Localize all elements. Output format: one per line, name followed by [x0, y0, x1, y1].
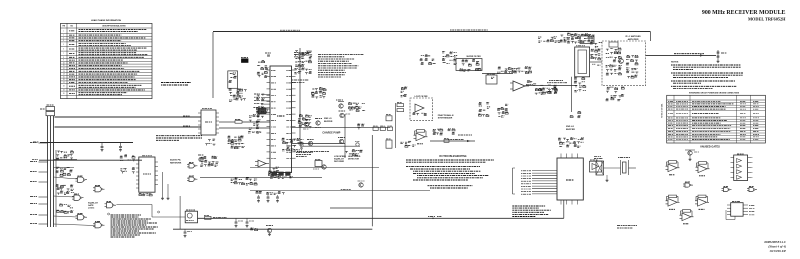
wire bus stub 6	[30, 203, 48, 206]
wire VCO to IF amp	[590, 62, 602, 65]
resistor R310	[204, 215, 227, 219]
VCO tuning parts	[590, 42, 602, 60]
U404 bypass caps	[139, 193, 152, 196]
loop filter ground caps	[400, 141, 415, 147]
wire bus line 2	[50, 116, 52, 227]
transistor Q460	[685, 150, 699, 161]
de-emphasis network	[200, 156, 219, 166]
gate U402B	[105, 202, 117, 208]
svg-text:SHIELD DETAIL: SHIELD DETAIL	[661, 102, 664, 118]
resistor network R230-R232	[373, 126, 393, 130]
note parts noted	[617, 226, 637, 229]
wire 5V net	[33, 141, 133, 144]
IF amp bias parts	[606, 87, 625, 101]
wire AUD net	[55, 116, 202, 117]
IC U303 squelch decoder	[313, 159, 326, 169]
wire VCC vertical drop	[212, 32, 214, 98]
label fractional-N synthesizer	[438, 114, 454, 120]
capacitors C230 group	[357, 124, 364, 130]
svg-text:IF LC MATCHED: IF LC MATCHED	[625, 35, 641, 38]
capacitor C209	[265, 53, 271, 56]
U200 left side parts	[256, 94, 265, 123]
label VCO buffer	[566, 126, 575, 131]
detector module U301	[185, 210, 197, 223]
label 2nd LO	[292, 80, 309, 82]
wire U800 riser	[563, 200, 565, 218]
label squelch decoder	[334, 156, 347, 163]
high speed data filter	[345, 150, 363, 161]
gate U401A	[76, 176, 88, 182]
svg-text:UNUSED GATES: UNUSED GATES	[700, 146, 720, 149]
capacitor squelch bypass 1	[257, 195, 260, 202]
svg-text:SUPER FILTER: SUPER FILTER	[466, 56, 481, 58]
super filter caps	[460, 68, 481, 71]
squelch net parts	[231, 178, 257, 185]
capacitors C440 C441	[717, 50, 728, 63]
resistor R421	[261, 108, 270, 113]
svg-text:12: 12	[63, 68, 65, 70]
op-amp U502	[510, 81, 529, 91]
svg-text:19: 19	[63, 89, 65, 91]
gate U405A	[187, 163, 197, 169]
U200 lower left parts	[248, 108, 260, 134]
op-amp U454C	[680, 210, 694, 224]
label audio processor	[170, 159, 182, 165]
caution paragraph	[108, 211, 160, 237]
filter FL200	[258, 107, 266, 114]
buffer input parts	[570, 112, 581, 118]
U800 note paragraph	[512, 206, 551, 217]
gate U402A	[93, 222, 105, 228]
wire charge pump mid	[292, 126, 390, 128]
doc number block	[764, 240, 786, 253]
svg-text:MODEL TRF6052H: MODEL TRF6052H	[748, 16, 786, 21]
FL201 ground caps	[270, 176, 293, 178]
transistor Q440	[198, 155, 204, 162]
VCO input parts	[535, 88, 557, 95]
oscillator Y450	[594, 156, 621, 175]
U800 decoupling caps	[558, 138, 584, 148]
label top rail	[280, 29, 300, 31]
filter input parts	[420, 52, 458, 65]
wire U200 aux	[292, 143, 345, 145]
svg-text:20: 20	[63, 93, 65, 95]
loop filter output parts A	[478, 103, 490, 117]
svg-text:AUDIO PA: AUDIO PA	[170, 159, 181, 162]
IF LC matched amplifier Q401	[602, 35, 646, 85]
varactor D201	[355, 142, 360, 147]
capacitors C205-C208	[257, 61, 268, 78]
op-amp U501B	[414, 130, 428, 144]
IC power and ground table	[667, 92, 766, 144]
svg-text:(Sheet 4 of 4): (Sheet 4 of 4)	[768, 245, 786, 249]
wire charge pump right	[394, 103, 396, 148]
wire gate feed 4	[54, 196, 75, 197]
synth path parts C	[540, 85, 558, 94]
gate U401C	[72, 194, 84, 200]
U403 bypass caps	[205, 139, 215, 146]
svg-text:CHARGE PUMP: CHARGE PUMP	[322, 132, 340, 135]
svg-text:LOOP FILTER: LOOP FILTER	[414, 96, 428, 98]
svg-text:PIN: PIN	[62, 26, 65, 28]
wire bottom jog	[330, 207, 372, 209]
internal speaker network	[228, 132, 262, 149]
svg-text:11: 11	[63, 65, 65, 67]
capacitor squelch bypass 2	[267, 195, 270, 202]
audio input network A	[120, 155, 135, 162]
gate input RC parts B	[56, 167, 73, 176]
gate U453C	[747, 187, 757, 192]
svg-text:NOTES:: NOTES:	[671, 61, 679, 63]
top rail bypass parts	[538, 37, 561, 43]
svg-text:NETWORK: NETWORK	[170, 162, 182, 164]
wire gate feed 2	[54, 167, 75, 169]
wire mod net	[344, 114, 346, 158]
wire bus stub 3	[30, 171, 48, 174]
transistor Q203	[315, 119, 322, 128]
capacitor squelch bypass 3	[276, 195, 279, 202]
crystal Y201	[241, 57, 248, 62]
svg-text:14: 14	[63, 74, 65, 76]
svg-text:FRACTIONAL-N: FRACTIONAL-N	[438, 114, 454, 117]
label charge pump	[322, 132, 340, 135]
gate U401D	[76, 214, 88, 220]
resistors R240 R241	[397, 102, 404, 111]
wire synth signal path B	[526, 84, 577, 86]
title: 900 MHz RECEIVER MODULE	[702, 10, 786, 16]
op-amp U451A	[666, 161, 680, 175]
gate U405B	[187, 176, 197, 182]
op-amp U454A	[666, 195, 680, 209]
wire gate feed 1	[54, 158, 78, 160]
lead table	[61, 19, 153, 99]
svg-text:18: 18	[63, 86, 65, 88]
svg-text:BUFFER: BUFFER	[566, 129, 575, 131]
wire gate output drops	[161, 172, 170, 200]
synth path parts B	[526, 80, 536, 85]
transistor Q206	[307, 140, 314, 146]
TCXO support components	[229, 88, 247, 101]
wire synth signal path A	[482, 73, 513, 75]
wire bus line 1	[47, 116, 49, 227]
wire U403 aux out	[219, 127, 270, 129]
wire U200 input stubs	[254, 94, 270, 104]
IC U200 RF/IF subsystem	[267, 66, 296, 173]
svg-text:10/13/99-UP: 10/13/99-UP	[769, 249, 786, 253]
capacitor rail B 1	[235, 218, 244, 227]
VCO supply capacitors	[560, 33, 595, 44]
notes paragraph 1	[318, 55, 364, 78]
audio input network B	[120, 168, 135, 174]
wire bus stub 4	[30, 181, 48, 184]
gate input RC parts C	[56, 185, 75, 195]
wire audio feed net	[32, 159, 142, 162]
svg-text:2ND LO: 2ND LO	[566, 126, 574, 128]
op-amp U454B	[695, 195, 709, 209]
VCO buffer parts	[574, 77, 586, 92]
svg-text:DECODER: DECODER	[334, 161, 345, 163]
loop filter output parts B	[497, 104, 508, 117]
wire bus stub 8	[30, 223, 48, 226]
wire bus stub 1	[30, 142, 48, 145]
wire bus line 3	[53, 116, 55, 227]
label IF frequency note	[294, 53, 310, 57]
filter cells FL201	[272, 172, 290, 175]
svg-text:13: 13	[63, 71, 65, 73]
svg-text:16: 16	[63, 79, 65, 81]
buffer module U601	[580, 35, 594, 44]
svg-text:INT SPKR: INT SPKR	[252, 132, 262, 134]
rx troubleshooting notes	[406, 156, 494, 188]
svg-text:SYNTHESIZER: SYNTHESIZER	[438, 118, 453, 120]
svg-text:LEAD PHASE INFORMATION: LEAD PHASE INFORMATION	[91, 19, 121, 22]
wire squelch row upper	[250, 167, 379, 169]
wire gate feed 3	[54, 177, 78, 179]
wire bus stub 5	[30, 196, 48, 199]
wire detector feed	[179, 196, 181, 229]
note squelch	[296, 153, 313, 157]
svg-text:900 MHz RECEIVER MODULE: 900 MHz RECEIVER MODULE	[702, 10, 786, 16]
IC U452 quad comparator	[731, 154, 753, 181]
capacitor bank C240	[386, 115, 392, 149]
capacitor C310	[184, 229, 193, 237]
wire U200 bottom pins	[274, 173, 286, 178]
svg-text:17: 17	[63, 82, 65, 84]
connector J2	[40, 105, 55, 116]
gate input RC parts A	[56, 151, 74, 160]
transistor Q208	[358, 181, 365, 187]
subtitle: MODEL TRF6052H	[748, 16, 786, 21]
synth path parts A	[497, 67, 531, 74]
svg-text:DETECTOR: DETECTOR	[348, 159, 360, 161]
oscillator module Y200	[228, 71, 238, 88]
transistor Q204	[336, 100, 344, 108]
capacitor C302	[119, 143, 122, 152]
wire squelch row lower	[250, 189, 430, 190]
transistor Q205	[339, 111, 351, 118]
svg-text:AMPLIFIER: AMPLIFIER	[628, 38, 639, 41]
IC U800 controller	[513, 154, 584, 205]
gate U401B	[93, 186, 105, 192]
capacitor rail B 2	[246, 218, 255, 227]
rail B junction parts	[428, 217, 442, 220]
wire gate feed 5	[54, 216, 78, 217]
IC U503 divider	[486, 74, 497, 84]
gate U453B	[722, 187, 732, 192]
synthesizer output parts	[433, 129, 455, 135]
loop filter U501A	[410, 96, 433, 121]
wire VCO feed	[571, 77, 573, 112]
wire bottom rail B	[198, 217, 564, 219]
notes block	[671, 61, 743, 88]
label 2nd IF output	[674, 53, 704, 55]
crystal filter FL450	[606, 158, 637, 182]
audio path parts	[282, 138, 304, 151]
label 2nd LO buffer	[324, 118, 333, 123]
svg-text:RX TROUBLESHOOTING: RX TROUBLESHOOTING	[439, 156, 466, 158]
wire charge pump lower	[300, 145, 360, 147]
svg-text:10: 10	[63, 62, 65, 64]
IC U404 audio PA	[136, 156, 158, 192]
gate U453A	[683, 182, 693, 187]
reference divider parts	[401, 87, 408, 97]
wire squelch net	[200, 176, 322, 178]
resistor R420	[219, 120, 270, 124]
wire squelch output	[116, 205, 185, 218]
wire loop filter output	[430, 140, 475, 143]
capacitor C301	[101, 143, 104, 152]
note audio path	[156, 136, 202, 141]
note charge pump	[297, 151, 329, 153]
IC U455	[726, 202, 755, 220]
op-amp U451B	[696, 162, 710, 176]
svg-text:15: 15	[63, 76, 65, 78]
table side note	[161, 83, 191, 86]
wire 2nd IF output	[646, 54, 716, 56]
op-amp U202A	[255, 160, 269, 167]
charge pump components A	[298, 115, 312, 129]
label 1st LO injection	[547, 81, 567, 83]
transistor Q310 group	[250, 226, 273, 236]
label unused gates	[700, 146, 720, 149]
wire RX AUDIO net	[55, 126, 202, 127]
IC U801 buffer	[590, 160, 602, 172]
charge pump components B	[349, 103, 366, 112]
gate input RC parts D	[57, 204, 74, 214]
svg-text:68P02085E14-C: 68P02085E14-C	[764, 240, 786, 244]
VCO module U551	[575, 46, 590, 77]
super filter Q501	[456, 56, 482, 70]
label squelch gate logic	[88, 202, 98, 209]
wire charge pump feedback	[299, 48, 301, 146]
label synth output	[458, 134, 472, 136]
svg-text:2ND LO: 2ND LO	[324, 118, 332, 120]
wire gate feed 6	[54, 224, 96, 226]
mixer buffer parts	[311, 88, 326, 99]
wire bus stub 7	[30, 214, 48, 217]
squelch filter parts	[268, 167, 279, 176]
wire vertical return net	[371, 135, 373, 226]
transistor Q207	[338, 138, 345, 144]
label shield (rotated)	[661, 102, 664, 118]
wire bus line 4	[55, 150, 57, 227]
wire bottom rail A	[173, 228, 372, 230]
transistor Q202	[303, 120, 310, 129]
svg-text:INTEGRATED CIRCUIT POWER AND G: INTEGRATED CIRCUIT POWER AND GROUND CONN…	[689, 92, 740, 95]
U200 top-right components	[294, 51, 313, 75]
resistor R510	[444, 138, 449, 142]
svg-text:BUFFER: BUFFER	[324, 121, 333, 123]
IC U403 audio amplifier	[198, 109, 219, 135]
wire bus stub 2	[30, 161, 48, 164]
wire top supply rail	[213, 30, 650, 41]
svg-text:LOGIC: LOGIC	[88, 207, 95, 209]
squelch lower parts	[256, 191, 285, 194]
